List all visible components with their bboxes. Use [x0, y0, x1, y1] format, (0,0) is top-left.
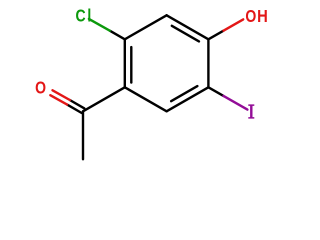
wire bond C to CH3: [82, 111, 84, 159]
wire bond TR to OH (black half): [208, 31, 223, 40]
svg-text:C: C: [76, 6, 86, 26]
molecule: 1-(2-chloro-4-hydroxy-5-iodophenyl)ethanone: [0, 0, 300, 176]
wire bond BL to carbonyl C: [83, 87, 125, 111]
wire bond to Cl (green half): [89, 19, 110, 31]
wire C=O double bond black halves: [67, 100, 84, 113]
wire ring bond TL-T: [125, 15, 167, 39]
wire ring bond B-BL: [125, 87, 167, 111]
atom label OH: [245, 7, 267, 27]
wire ring double bond BL-TL: [125, 39, 132, 87]
wire C=O double bond red halves: [50, 90, 70, 104]
svg-text:O: O: [35, 78, 46, 98]
wire bond to OH (red half): [224, 19, 244, 30]
atom label I (drawn with serifs): [248, 104, 254, 118]
atom label O (ketone): [35, 78, 46, 98]
atom label Cl: [76, 6, 92, 26]
svg-text:H: H: [257, 7, 268, 27]
wire ring double bond BR-B: [167, 86, 209, 111]
wire bond BR to I (black half): [208, 87, 223, 96]
wire ring bond TR-BR: [207, 39, 209, 87]
svg-text:l: l: [87, 6, 91, 26]
svg-text:O: O: [245, 7, 256, 27]
wire bond to I (purple half): [224, 96, 248, 110]
wire bond TL to Cl (black half): [110, 31, 125, 40]
wire ring double bond T-TR: [167, 15, 209, 41]
